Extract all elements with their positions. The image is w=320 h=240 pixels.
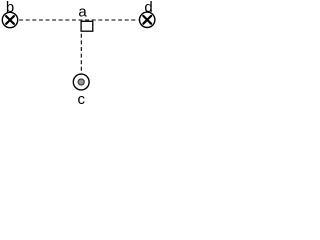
svg-text:d: d [144,0,152,16]
node a right-angle square marker [81,21,93,31]
background [0,0,161,104]
svg-text:c: c [77,91,85,104]
current symbol d (into page) [140,12,155,27]
svg-text:a: a [78,4,87,21]
current symbol b (into page) [2,12,17,27]
svg-text:b: b [6,0,14,16]
wire: dashed vertical line a-c [80,34,82,71]
wire: dashed horizontal line b-a-d [19,19,138,21]
current symbol c (out of page) [73,74,89,90]
